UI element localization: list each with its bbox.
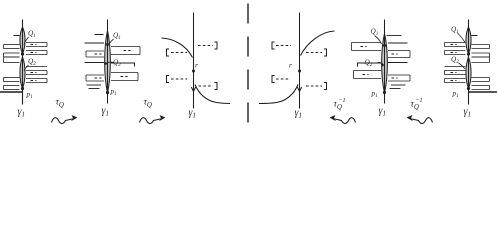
r arc dashed lower right bbox=[306, 85, 322, 87]
wire: vertical line bbox=[299, 13, 301, 109]
wire: bottom-left arc of gamma bbox=[259, 85, 298, 104]
node: marked point bbox=[298, 70, 301, 73]
r strands left upper comb bbox=[445, 42, 466, 44]
wire: top tick bbox=[472, 35, 478, 37]
long annulus band bbox=[382, 34, 388, 94]
node: marked point lower bbox=[106, 91, 109, 94]
figure 6: mirrored curve near annuli bbox=[445, 20, 497, 119]
svg-text:r: r bbox=[195, 61, 198, 70]
r strand long right upper bbox=[388, 42, 408, 44]
wire: vertical curve gamma_1 bbox=[384, 20, 386, 104]
r strands right upper comb bbox=[26, 42, 47, 44]
svg-text:r: r bbox=[289, 61, 292, 70]
r strands right middle comb bbox=[472, 56, 490, 58]
r arc dashed upper right bbox=[306, 52, 322, 54]
node: marked point lower bbox=[467, 87, 470, 90]
wire: top tick bbox=[95, 34, 104, 36]
figure 3: fully twisted curve, S-shape with r arcs bbox=[162, 13, 231, 120]
r strands right lower comb bbox=[26, 66, 47, 68]
r strands left comb A bbox=[86, 50, 104, 52]
node: marked point upper bbox=[383, 44, 386, 47]
r strand left middle bbox=[358, 63, 382, 67]
wire: gamma_1 core bbox=[468, 20, 470, 105]
arrow tau_Q^-1 (fig5 -> fig6) bbox=[407, 97, 433, 124]
r arc dashed lower left bbox=[272, 76, 275, 83]
wire: top-right arc of gamma bbox=[301, 31, 335, 56]
r arc dashed upper right bbox=[198, 45, 213, 47]
r strand long left upper bbox=[85, 42, 105, 44]
figure 1: curve gamma_1 near annuli Q1,Q2 bbox=[0, 20, 47, 119]
annulus Q1 (upper lens) bbox=[466, 27, 471, 54]
r arc dashed upper left bbox=[272, 42, 275, 49]
wire: vertical curve gamma_1 bbox=[22, 20, 24, 105]
node: marked point upper bbox=[21, 52, 24, 55]
figure 5: mirrored long annulus figure bbox=[352, 20, 411, 118]
long annulus band bbox=[105, 31, 111, 94]
r arc dashed lower right bbox=[199, 85, 214, 87]
wire: vertical curve gamma_1 bbox=[468, 20, 470, 105]
annulus Q2 (lower lens) bbox=[466, 57, 471, 89]
wire: top tick bbox=[387, 35, 402, 37]
r strands right comb A bbox=[111, 46, 140, 48]
orientation barb bbox=[297, 87, 301, 92]
orientation barb bbox=[191, 87, 195, 92]
r strand long left middle bbox=[85, 62, 105, 64]
node: marked point bbox=[192, 70, 195, 73]
r strands left comb A bbox=[352, 42, 382, 44]
r strands converging to tip bbox=[87, 84, 102, 86]
r strands right comb A bbox=[388, 50, 410, 52]
r strands right comb B bbox=[388, 74, 410, 76]
r strands left middle comb bbox=[4, 56, 20, 58]
r strands left lower comb bbox=[4, 77, 20, 79]
r strand long right middle bbox=[388, 62, 408, 64]
figure 4: mirrored twisted curve bbox=[259, 13, 335, 120]
node: marked point upper bbox=[467, 52, 470, 55]
r arc dashed lower left bbox=[167, 76, 170, 83]
arrow tau_Q (fig1 -> fig2) bbox=[52, 98, 78, 124]
r strands right comb B bbox=[111, 72, 138, 74]
wire: vertical curve gamma_1 bbox=[107, 20, 109, 104]
dashed separator line bbox=[247, 4, 249, 125]
arrow tau_Q^-1 (fig4 -> fig5) bbox=[330, 97, 356, 124]
r strands left comb B bbox=[354, 70, 382, 72]
wire: top-left arc of gamma bbox=[162, 38, 193, 58]
wire: vertical line bbox=[193, 13, 195, 109]
annulus Q1 (upper lens) bbox=[20, 27, 25, 54]
r strands converging to tip bbox=[391, 84, 406, 86]
node: marked point lower bbox=[21, 87, 24, 90]
figure 2: gamma_1 twisted once, long annulus bbox=[85, 20, 141, 118]
wire: long r strand to left edge bbox=[0, 91, 23, 93]
wire: long r strand to right edge bbox=[469, 91, 497, 93]
r arc dashed upper left bbox=[167, 49, 170, 56]
r strand right middle bbox=[111, 63, 135, 67]
node: marked point upper bbox=[106, 43, 109, 46]
annulus Q2 (lower lens) bbox=[20, 57, 25, 89]
r strands left lower comb bbox=[445, 66, 466, 68]
r strands left upper comb bbox=[4, 44, 20, 46]
r strands right upper comb bbox=[472, 44, 490, 46]
node: marked point lower bbox=[383, 91, 386, 94]
r strands right lower comb bbox=[472, 77, 490, 79]
wire: gamma_1 core through lenses bbox=[22, 20, 24, 105]
arrow tau_Q (fig2 -> fig3) bbox=[140, 98, 166, 124]
r strands left comb B bbox=[86, 74, 104, 76]
wire: bottom-right arc of gamma bbox=[195, 85, 230, 104]
wire: top tick of r strand bbox=[14, 35, 20, 37]
